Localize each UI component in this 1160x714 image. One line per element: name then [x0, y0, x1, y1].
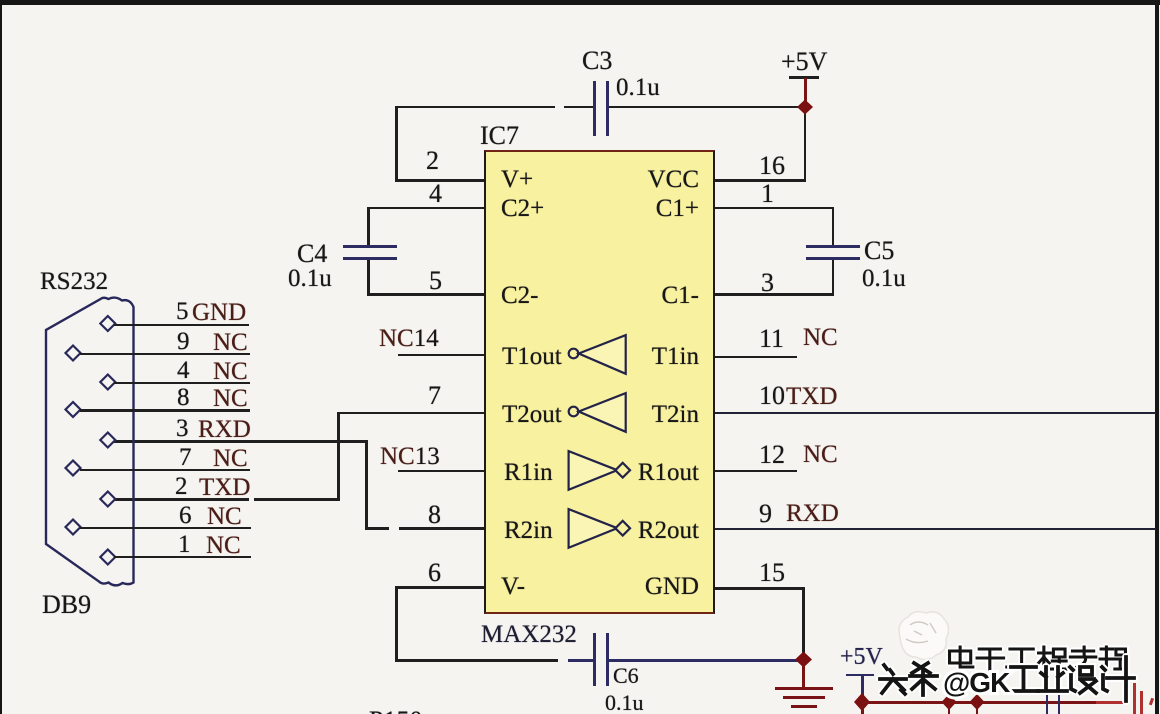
pin 5 diamond — [100, 316, 115, 331]
pin 6 diamond — [66, 520, 81, 535]
junction dot bottom pin15 — [794, 651, 813, 668]
wire DB9 pin 5 GND — [114, 324, 249, 327]
label DB9 pin 4 NC — [177, 358, 190, 383]
pin 5 number — [429, 268, 442, 294]
svg-text:@GK: @GK — [943, 667, 1010, 698]
wire pin10 TXD line — [715, 412, 1156, 415]
wire pin1 C1+ — [715, 207, 834, 210]
pin 8 diamond — [66, 402, 81, 417]
pin 13 label NC13 — [380, 444, 440, 469]
pin 3 number — [761, 270, 774, 296]
inverter R1 — [560, 446, 638, 496]
pin 10 label TXD — [759, 383, 785, 409]
pin 9 label RXD — [759, 501, 772, 527]
main watermark row (头条 @GK工业设计) white halo — [880, 657, 1134, 701]
pin 4 number — [429, 181, 442, 207]
pin 11 label — [759, 326, 784, 352]
IC U1 MAX232 body — [484, 150, 715, 614]
label DB9 pin 1 NC — [178, 532, 191, 557]
wire DB9 pin 1 NC — [114, 556, 251, 559]
wire C3 left — [395, 106, 555, 109]
wire pin12 stub — [715, 470, 797, 473]
pin 16 number — [759, 153, 785, 179]
pin 1 number — [761, 181, 774, 207]
label DB9 pin 3 RXD — [176, 416, 189, 441]
pin 1 diamond — [100, 550, 115, 565]
wire DB9 pin 9 NC — [80, 353, 250, 356]
red power rail bottom — [861, 701, 1096, 704]
label DB9 pin 2 TXD — [175, 474, 188, 499]
pin 3 diamond — [100, 433, 115, 448]
label DB9 pin 8 NC — [177, 385, 190, 410]
junction dots on rail — [940, 693, 958, 711]
label DB9 pin 9 NC — [177, 329, 190, 354]
wire pin9 RXD line — [715, 528, 1156, 531]
capacitor C6 — [593, 633, 596, 686]
pin names right column — [648, 167, 699, 192]
capacitor C4 — [343, 245, 397, 248]
wire C3 right — [608, 106, 806, 109]
wire pin6 V- loop — [395, 586, 484, 589]
label IC7 — [480, 123, 519, 149]
wire pin13 stub — [398, 470, 484, 473]
ground — [802, 663, 805, 688]
navy verticals bottom right — [1046, 668, 1049, 714]
capacitor C5 — [806, 245, 860, 248]
junction dot top — [796, 99, 814, 115]
junction dot +5V bottom — [852, 692, 872, 712]
label MAX232 — [481, 622, 577, 647]
pin 6 number — [428, 560, 441, 586]
power +5V top — [781, 49, 827, 75]
label DB9 pin 5 GND — [176, 299, 189, 324]
pin 15 number — [759, 560, 785, 586]
pin 7 diamond — [66, 461, 81, 476]
pin names left column — [501, 167, 533, 192]
wire DB9 pin 6 NC — [80, 527, 251, 530]
wire DB9 pin 7 NC — [80, 469, 250, 472]
inverter R2 — [560, 504, 638, 554]
inverter T1 — [560, 330, 635, 380]
power +5V bottom — [840, 645, 883, 669]
wire pin11 stub — [715, 356, 797, 359]
pin 12 label — [759, 442, 785, 468]
DB9 connector RS232 — [40, 269, 108, 294]
pin 4 diamond — [100, 375, 115, 390]
pin 8 number — [428, 502, 441, 528]
wire pin3 C1- — [715, 293, 834, 296]
inverter T2 — [560, 388, 635, 438]
capacitor C4 leads — [367, 207, 370, 248]
wire pin16 VCC — [715, 179, 806, 182]
wire pin14 stub — [398, 354, 484, 357]
wire pin5 C2- — [367, 293, 484, 296]
label DB9 pin 6 NC — [179, 503, 192, 528]
pin 2 number — [426, 148, 439, 174]
wire C6 left segment — [568, 659, 595, 662]
pin 9 diamond — [66, 346, 81, 361]
label DB9 pin 7 NC — [179, 445, 192, 470]
white logo blob — [899, 612, 949, 660]
pin 14 label NC14 — [379, 326, 439, 351]
wire DB9 pin 8 NC — [80, 409, 250, 412]
watermark — [870, 605, 1160, 714]
capacitor C3 — [593, 81, 596, 136]
wire DB9 pin 4 NC — [114, 382, 250, 385]
wire C6 right segment — [608, 659, 804, 662]
pin 2 diamond — [100, 492, 115, 507]
pin 7 number — [428, 383, 441, 409]
partial text bottom cut — [369, 708, 422, 714]
wire pin15 GND — [715, 587, 805, 590]
ghost watermark row (电子工程专辑) — [950, 647, 1127, 669]
wire pin4 C2+ — [367, 207, 484, 210]
wire RXD from DB9 pin3 to IC pin8 — [114, 440, 368, 443]
connector J1 DB9 outline — [46, 298, 134, 586]
wire TXD from DB9 pin2 to IC pin7 — [114, 498, 249, 501]
wire pin2 V+ loop — [395, 179, 484, 182]
red corner elements bottom right — [1124, 678, 1127, 703]
